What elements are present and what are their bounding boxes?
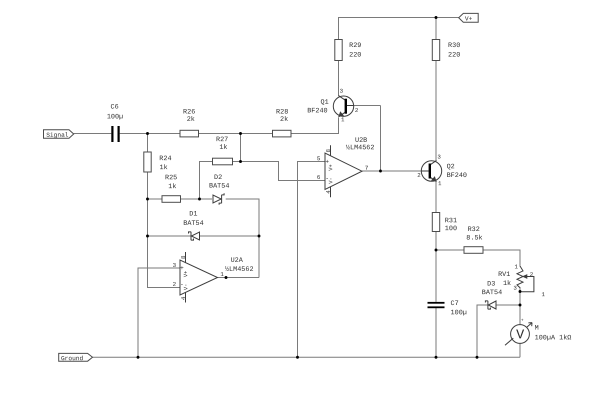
svg-text:BF240: BF240 bbox=[447, 172, 467, 180]
junction node C bbox=[435, 249, 438, 252]
svg-text:RV1: RV1 bbox=[498, 271, 510, 279]
svg-text:3: 3 bbox=[340, 88, 344, 95]
svg-text:V+: V+ bbox=[465, 15, 473, 22]
wire node A to R24 bbox=[147, 134, 149, 153]
svg-text:R24: R24 bbox=[159, 155, 171, 163]
resistor R27 bbox=[213, 158, 233, 165]
svg-text:3: 3 bbox=[173, 262, 177, 269]
capacitor C6 plate right bbox=[118, 126, 120, 142]
wire RV1 pin3 to node D3K bbox=[519, 288, 521, 305]
wire node B to R28 bbox=[241, 133, 273, 135]
svg-text:BAT54: BAT54 bbox=[209, 183, 229, 191]
wire R27 bottom leg bbox=[200, 162, 213, 200]
op-amp U2A bbox=[180, 260, 218, 295]
wire RV1 wiper to RV1 pin3 bbox=[520, 291, 522, 293]
svg-text:BF240: BF240 bbox=[307, 107, 327, 115]
capacitor C7 plate bottom bbox=[428, 306, 445, 308]
wire R28 to Q1 emitter bbox=[291, 117, 339, 133]
wire D2 cathode to node F bbox=[226, 199, 259, 278]
wire R24 to node D bbox=[147, 172, 149, 199]
wire U2B pin5 to ground rail bbox=[298, 162, 326, 358]
svg-text:2: 2 bbox=[417, 172, 421, 179]
wire D1 cathode to node F bbox=[200, 235, 260, 237]
resistor R25 bbox=[162, 196, 181, 203]
svg-text:C6: C6 bbox=[111, 104, 119, 112]
svg-text:1: 1 bbox=[438, 180, 442, 187]
wire node D to node E bbox=[147, 199, 149, 236]
svg-text:R31: R31 bbox=[445, 217, 457, 225]
svg-text:100: 100 bbox=[445, 225, 457, 233]
svg-text:3: 3 bbox=[513, 285, 517, 292]
resistor R28 bbox=[273, 130, 292, 137]
svg-text:4: 4 bbox=[325, 190, 332, 194]
resistor R32 bbox=[464, 247, 483, 254]
wire R27 to node B2 bbox=[233, 161, 241, 163]
wire node A to R26 bbox=[148, 133, 181, 135]
svg-text:4: 4 bbox=[180, 296, 187, 300]
svg-text:100µA 1kΩ: 100µA 1kΩ bbox=[535, 334, 572, 342]
svg-text:Signal: Signal bbox=[46, 132, 69, 139]
wire node D to R25 bbox=[148, 198, 163, 200]
svg-text:U2A: U2A bbox=[231, 257, 244, 265]
junction node B2 / R27 right bbox=[239, 160, 242, 163]
junction V+ rail / R30 bbox=[435, 16, 438, 19]
diode D3 bbox=[488, 301, 496, 309]
svg-text:100µ: 100µ bbox=[107, 113, 123, 121]
wire node E to U2A pin2 bbox=[148, 236, 181, 288]
wire Q1 collector to R29 bbox=[338, 61, 340, 96]
wire Signal tag to C6 bbox=[74, 133, 112, 135]
wire U2A output pin1 to node F bbox=[218, 277, 260, 279]
wire D3 anode to ground rail bbox=[477, 305, 488, 357]
svg-text:V+: V+ bbox=[328, 164, 334, 170]
ground rail bbox=[93, 356, 521, 358]
svg-text:2: 2 bbox=[173, 281, 177, 288]
junction U2A pin1 cue bbox=[225, 276, 228, 279]
wire node B to R27 top bbox=[240, 134, 242, 162]
svg-text:+: + bbox=[521, 318, 524, 323]
svg-text:3: 3 bbox=[437, 153, 441, 160]
svg-text:R30: R30 bbox=[448, 42, 460, 50]
resistor R30 bbox=[432, 40, 439, 61]
wire node D3K to meter + bbox=[519, 305, 521, 325]
wire R30 to Q2 collector bbox=[435, 61, 437, 161]
wire pin7 node to Q1 base leg bbox=[380, 106, 382, 172]
wire meter - to ground rail bbox=[519, 343, 521, 357]
svg-text:2k: 2k bbox=[280, 116, 288, 124]
svg-text:8: 8 bbox=[325, 149, 332, 153]
wire Q1 base bbox=[347, 105, 381, 107]
wire C6 to node A bbox=[120, 133, 148, 135]
svg-text:Ground: Ground bbox=[61, 355, 84, 362]
svg-text:1k: 1k bbox=[168, 183, 176, 191]
resistor R29 bbox=[335, 40, 342, 61]
svg-text:V-: V- bbox=[183, 284, 189, 290]
svg-text:M: M bbox=[535, 325, 539, 333]
resistor R24 bbox=[144, 152, 151, 172]
svg-text:1: 1 bbox=[341, 116, 345, 123]
junction ground / U2A pin3 leg bbox=[137, 356, 140, 359]
resistor R26 bbox=[180, 130, 199, 137]
junction ground / U2B pin5 leg bbox=[296, 356, 299, 359]
capacitor C7 plate top bbox=[428, 302, 445, 304]
potentiometer RV1 bbox=[517, 266, 523, 289]
svg-text:V+: V+ bbox=[183, 271, 189, 277]
junction RV1 pin3 / wiper bbox=[519, 290, 522, 293]
junction ground / D3 leg bbox=[476, 356, 479, 359]
junction node D3K bbox=[519, 304, 522, 307]
svg-text:8: 8 bbox=[180, 255, 187, 259]
wire node C to R32 bbox=[436, 249, 464, 251]
svg-text:BAT54: BAT54 bbox=[482, 289, 502, 297]
wire R31 to node C bbox=[435, 232, 437, 251]
svg-text:1k: 1k bbox=[503, 280, 511, 288]
svg-text:1: 1 bbox=[514, 263, 518, 270]
junction node D / R25 left bbox=[146, 198, 149, 201]
output tag V+ bbox=[459, 13, 479, 22]
svg-text:1k: 1k bbox=[219, 144, 227, 152]
svg-text:220: 220 bbox=[448, 52, 460, 60]
svg-text:R29: R29 bbox=[349, 42, 361, 50]
input tag Ground bbox=[59, 353, 93, 361]
svg-text:D1: D1 bbox=[189, 211, 197, 219]
resistor R31 bbox=[432, 213, 439, 232]
svg-text:Q1: Q1 bbox=[321, 99, 329, 107]
diode D1 bbox=[191, 232, 199, 240]
diode D2 bbox=[213, 195, 221, 203]
wire Q2 emitter to R31 bbox=[435, 182, 437, 213]
input tag Signal bbox=[44, 130, 74, 138]
junction R27 leg / D2 anode bbox=[198, 198, 201, 201]
svg-text:2k: 2k bbox=[187, 116, 195, 124]
svg-text:1: 1 bbox=[541, 291, 545, 298]
svg-text:6: 6 bbox=[317, 174, 321, 181]
transistor Q1 base bar bbox=[345, 99, 347, 114]
wire V+ rail to R30 bbox=[435, 18, 437, 40]
junction U2B out / Q1 base leg bbox=[379, 170, 382, 173]
transistor Q2 base bar bbox=[429, 164, 431, 179]
svg-text:220: 220 bbox=[349, 52, 361, 60]
meter M bbox=[511, 325, 530, 344]
svg-text:BAT54: BAT54 bbox=[183, 220, 203, 228]
svg-text:C7: C7 bbox=[451, 300, 459, 308]
junction node B bbox=[239, 132, 242, 135]
wire R32 to RV1 pin1 bbox=[483, 250, 520, 266]
svg-text:5: 5 bbox=[317, 155, 321, 162]
capacitor C6 plate left bbox=[111, 126, 113, 142]
svg-text:R25: R25 bbox=[165, 174, 177, 182]
svg-text:D2: D2 bbox=[214, 174, 222, 182]
svg-text:V-: V- bbox=[328, 177, 334, 183]
junction ground / C7 leg bbox=[435, 356, 438, 359]
transistor Q1 bbox=[333, 96, 353, 116]
wire D3 cathode to node D3K bbox=[496, 304, 520, 306]
wire C7 to ground rail bbox=[435, 308, 437, 357]
wire U2A pin3 to ground rail bbox=[138, 268, 180, 357]
svg-text:8.5k: 8.5k bbox=[466, 235, 482, 243]
junction node E / D1 row left bbox=[146, 235, 149, 238]
wire node B2 to U2B pin6 bbox=[241, 162, 326, 181]
wire R25 to D2 anode bbox=[181, 198, 213, 200]
junction node A bbox=[146, 132, 149, 135]
svg-text:2: 2 bbox=[355, 107, 359, 114]
svg-text:½LM4562: ½LM4562 bbox=[346, 143, 375, 152]
svg-text:V: V bbox=[516, 328, 525, 343]
svg-text:R32: R32 bbox=[468, 226, 480, 234]
svg-text:D3: D3 bbox=[487, 280, 495, 288]
svg-text:1k: 1k bbox=[160, 164, 168, 172]
op-amp U2B bbox=[325, 153, 362, 190]
wire R29 to V+ rail bbox=[339, 18, 459, 40]
wire node C to C7 bbox=[435, 250, 437, 302]
wire node E to D1 anode bbox=[148, 235, 191, 237]
svg-text:1: 1 bbox=[220, 271, 224, 278]
svg-text:½LM4562: ½LM4562 bbox=[225, 265, 254, 274]
wire U2B output pin7 to Q2 base bbox=[362, 170, 429, 172]
junction node F / D1 row right bbox=[258, 235, 261, 238]
svg-text:Q2: Q2 bbox=[447, 163, 455, 171]
svg-text:7: 7 bbox=[365, 165, 369, 172]
wire R26 to node B bbox=[199, 133, 241, 135]
svg-text:100µ: 100µ bbox=[451, 309, 467, 317]
svg-text:2: 2 bbox=[530, 271, 534, 278]
transistor Q2 bbox=[421, 161, 441, 181]
